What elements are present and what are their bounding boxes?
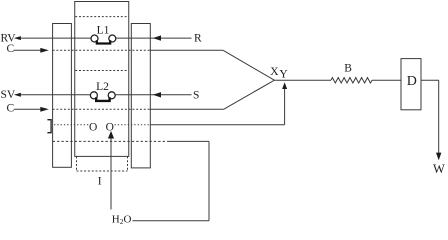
C lower dashed wire through chambers	[53, 108, 151, 110]
L2 lever yoke	[96, 97, 109, 101]
svg-text:Y: Y	[279, 69, 288, 81]
wire L2 to S arrow	[115, 94, 191, 96]
bracket label	[47, 120, 51, 133]
svg-text:O: O	[89, 122, 97, 134]
dotted wire bracket to O	[54, 124, 89, 126]
R arrowhead	[153, 35, 161, 40]
S arrowhead	[153, 92, 161, 97]
RV wire	[21, 37, 91, 39]
lower diagonal wire to node X	[224, 80, 275, 109]
wire O row to Y riser	[150, 124, 284, 126]
L1 lever left ring	[91, 35, 98, 42]
solid wire to water bath corner	[168, 140, 209, 142]
L1 lever yoke	[97, 40, 110, 43]
svg-text:C: C	[7, 102, 15, 114]
svg-text:D: D	[407, 74, 417, 89]
dotted wire O to flank	[115, 124, 151, 126]
svg-text:L1: L1	[97, 24, 110, 36]
axis wire X to zigzag	[274, 79, 331, 81]
L2 lever right ring	[108, 92, 115, 99]
svg-text:R: R	[194, 33, 202, 45]
svg-text:C: C	[7, 43, 15, 55]
C lower arrowhead	[40, 107, 49, 112]
dashed sub-chamber below (left side)	[76, 156, 78, 171]
L1 lever right ring	[109, 35, 116, 42]
svg-text:B: B	[344, 62, 352, 74]
left flank rectangle	[53, 24, 72, 168]
dashed sub-chamber below (bottom side)	[77, 170, 128, 172]
C upper solid wire to bend	[150, 49, 223, 51]
dashed partition top inside chamber	[75, 16, 128, 18]
H2O riser arrowhead	[108, 131, 114, 139]
dashed sub-chamber below (right side)	[127, 156, 129, 171]
recorder box D	[401, 59, 421, 110]
svg-text:S: S	[193, 89, 199, 101]
svg-text:SV: SV	[1, 89, 16, 101]
transducer coupling zigzag B	[331, 78, 372, 83]
C lower wire	[14, 108, 41, 110]
SV arrowhead	[14, 93, 21, 97]
C upper arrowhead	[40, 48, 49, 53]
wire D to weight drop	[421, 79, 439, 81]
W arrowhead	[436, 153, 441, 161]
dashed wire to water bath	[53, 140, 169, 142]
upper diagonal wire to node X	[223, 50, 274, 80]
right flank rectangle	[131, 24, 150, 168]
SV wire	[21, 94, 90, 96]
svg-text:H2O: H2O	[112, 214, 132, 227]
svg-text:W: W	[433, 162, 445, 176]
weight drop wire	[438, 80, 440, 153]
RV arrowhead	[14, 36, 21, 40]
L2 lever left ring	[90, 92, 97, 99]
C upper dashed wire through chambers	[53, 49, 151, 51]
C upper wire	[14, 49, 41, 51]
central chamber rectangle	[75, 2, 129, 157]
svg-text:O: O	[106, 122, 114, 134]
wire L1 to R arrow	[116, 37, 192, 39]
svg-text:L2: L2	[96, 81, 109, 93]
H2O riser wire	[110, 137, 112, 210]
Y riser arrowhead	[282, 82, 287, 89]
dashed partition middle inside chamber	[75, 70, 128, 72]
axis wire zigzag to D	[372, 79, 401, 81]
svg-text:I: I	[98, 176, 102, 188]
water bath right wire down	[208, 141, 210, 220]
C lower solid wire to bend	[150, 108, 223, 110]
svg-text:X: X	[270, 66, 279, 78]
Y riser wire	[284, 88, 286, 125]
water bath bottom wire	[133, 220, 210, 222]
